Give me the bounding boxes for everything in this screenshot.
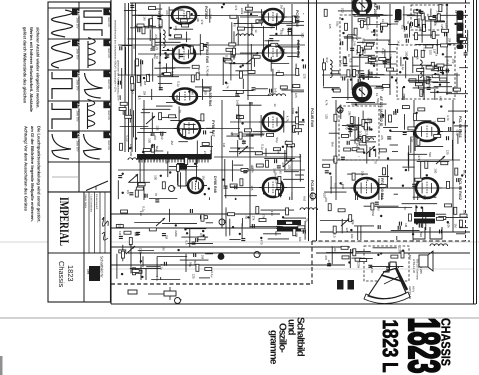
- wire: [139, 159, 141, 184]
- value label: [250, 166, 254, 173]
- svg-text:2M: 2M: [143, 91, 147, 96]
- value label: [351, 219, 355, 224]
- wire: [139, 253, 141, 264]
- value label: [238, 115, 242, 121]
- value label: [340, 182, 344, 186]
- resistor: [196, 73, 199, 80]
- value label: [356, 262, 360, 269]
- value label: [279, 47, 283, 53]
- svg-text:50µ: 50µ: [376, 98, 380, 103]
- wire: [367, 43, 375, 45]
- value label: [455, 130, 459, 136]
- value label: [451, 87, 455, 92]
- svg-text:125: 125: [192, 274, 196, 279]
- junction: [415, 206, 417, 208]
- IF stage dashed box 2: [339, 106, 379, 160]
- resistor: [259, 219, 266, 222]
- wire: [373, 247, 397, 249]
- wire: [354, 116, 356, 143]
- title table line: [88, 192, 90, 253]
- wire: [366, 85, 387, 87]
- wire: [119, 95, 121, 100]
- wire: [155, 41, 181, 43]
- capacitor: [152, 144, 154, 148]
- wire: [173, 28, 193, 30]
- value label: [340, 8, 344, 13]
- value label: [353, 95, 357, 100]
- svg-text:470: 470: [373, 29, 377, 34]
- svg-text:27k: 27k: [234, 5, 238, 10]
- svg-text:1n5: 1n5: [208, 14, 212, 19]
- capacitor: [157, 17, 161, 19]
- wire row mid2: [322, 74, 460, 76]
- resistor: [295, 129, 302, 132]
- wire: [360, 225, 362, 240]
- capacitor: [118, 176, 122, 178]
- coil L2: [236, 34, 254, 36]
- wire: [199, 34, 201, 55]
- antenna plug a: [337, 280, 344, 290]
- resistor: [201, 114, 204, 121]
- junction: [247, 216, 249, 218]
- svg-text:70: 70: [155, 56, 159, 60]
- resistor: [368, 56, 371, 63]
- value label: [269, 24, 273, 29]
- capacitor: [440, 230, 442, 234]
- wire: [346, 102, 375, 104]
- potentiometer arrow 8: [156, 218, 165, 226]
- value label: [358, 85, 362, 91]
- svg-text:0,5: 0,5: [349, 58, 353, 63]
- wire: [360, 24, 392, 26]
- value label: [436, 71, 440, 76]
- svg-text:4,7k: 4,7k: [324, 100, 328, 106]
- resistor: [228, 213, 235, 216]
- resistor: [285, 141, 292, 144]
- value label: [233, 23, 237, 27]
- svg-text:am Gl der Bildröhre liegende M: am Gl der Bildröhre liegende Meßpulle en…: [30, 126, 35, 222]
- junction: [332, 88, 334, 90]
- svg-text:50µ: 50µ: [336, 21, 340, 26]
- junction: [362, 49, 364, 51]
- junction: [223, 3, 225, 5]
- wire: [367, 70, 369, 80]
- wire: [358, 136, 377, 138]
- svg-text:470: 470: [324, 197, 328, 202]
- wire: [434, 89, 436, 100]
- oscillogram row line: [48, 100, 111, 102]
- value label: [143, 91, 147, 96]
- value label: [453, 224, 457, 229]
- wire: [290, 230, 305, 232]
- svg-text:125: 125: [345, 228, 349, 233]
- tube U4 PY88: [174, 119, 204, 139]
- channel tab 2: [457, 23, 464, 32]
- wire: [177, 174, 179, 185]
- value label: [298, 154, 302, 159]
- schematic right border: [473, 0, 475, 304]
- svg-text:1k: 1k: [347, 54, 351, 58]
- text und: [286, 319, 297, 335]
- oscillogram osc17 caption: [76, 49, 79, 60]
- svg-text:470: 470: [436, 127, 440, 132]
- svg-text:100: 100: [153, 175, 157, 180]
- svg-text:27k: 27k: [380, 86, 384, 91]
- svg-text:2M: 2M: [274, 44, 278, 49]
- svg-text:1n5: 1n5: [250, 185, 254, 190]
- junction: [204, 193, 206, 195]
- CRT label 2: [408, 286, 416, 300]
- resistor: [415, 178, 422, 181]
- value label: [327, 260, 331, 265]
- wire: [222, 57, 224, 85]
- capacitor: [270, 89, 272, 93]
- wire: [320, 220, 353, 222]
- svg-text:0,1µ: 0,1µ: [359, 131, 363, 137]
- chassis dashed bottom: [111, 283, 312, 285]
- value label: [345, 228, 349, 233]
- svg-text:18: 18: [75, 72, 81, 78]
- value label: [129, 144, 133, 149]
- value label: [118, 231, 122, 236]
- wire: [363, 39, 390, 41]
- capacitor: [162, 234, 166, 236]
- resistor: [415, 83, 422, 86]
- output transformer winding b: [414, 219, 435, 224]
- text Oszillo: [277, 323, 288, 352]
- resistor: [256, 207, 259, 214]
- wire: [129, 109, 131, 123]
- resistor: [293, 85, 300, 88]
- value label: [226, 83, 230, 89]
- wire: [332, 96, 368, 98]
- resistor: [439, 5, 442, 12]
- wire rail: [111, 246, 350, 248]
- svg-text:Bild 50V: Bild 50V: [107, 111, 110, 121]
- junction: [460, 42, 462, 44]
- resistor: [367, 18, 370, 25]
- svg-text:PCF802: PCF802: [204, 6, 208, 19]
- wire: [141, 112, 150, 114]
- resistor: [429, 17, 436, 20]
- svg-text:1k: 1k: [434, 53, 438, 57]
- wire: [122, 45, 133, 47]
- junction: [348, 261, 350, 263]
- wire: [137, 175, 139, 194]
- tube U12 PFL200: [351, 178, 383, 198]
- svg-text:1n5: 1n5: [174, 25, 178, 30]
- value label: [154, 34, 158, 39]
- value label: [415, 126, 419, 130]
- value label: [330, 142, 334, 147]
- wire row mid5: [118, 169, 305, 171]
- wire: [284, 171, 299, 173]
- capacitor: [348, 130, 352, 132]
- wire: [276, 16, 278, 31]
- resistor: [426, 66, 433, 69]
- svg-text:1k: 1k: [397, 40, 401, 44]
- resistor: [169, 115, 176, 118]
- resistor: [423, 24, 426, 31]
- value label: [440, 24, 444, 29]
- potentiometer arrow 2: [129, 174, 138, 182]
- wire: [465, 125, 468, 127]
- value label: [332, 158, 336, 163]
- CRT label: [412, 259, 423, 280]
- svg-text:50µ: 50µ: [155, 146, 159, 151]
- value label: [347, 54, 351, 58]
- junction: [238, 147, 240, 149]
- value label: [381, 19, 385, 23]
- wire: [349, 125, 351, 137]
- wire: [374, 87, 383, 89]
- junction: [405, 169, 407, 171]
- wire: [413, 34, 440, 36]
- wire: [357, 227, 359, 241]
- coil L9: [163, 30, 165, 48]
- wire: [402, 166, 414, 168]
- svg-text:10k: 10k: [462, 210, 466, 215]
- wire: [456, 233, 466, 235]
- tube U4 PY88 label: [211, 120, 215, 137]
- capacitor: [387, 137, 391, 139]
- value label: [427, 16, 431, 21]
- resistor: [119, 250, 126, 253]
- oscillogram osc9 number square: [103, 132, 112, 139]
- wire col g: [143, 100, 145, 200]
- value label: [432, 121, 436, 126]
- capacitor: [405, 34, 407, 38]
- value label: [368, 119, 372, 124]
- title small 288: [87, 269, 91, 275]
- svg-text:Zeile 50V: Zeile 50V: [76, 111, 79, 122]
- resistor: [278, 176, 281, 183]
- svg-text:27k: 27k: [200, 20, 204, 25]
- wire: [163, 67, 191, 69]
- junction: [454, 23, 456, 25]
- wire: [338, 10, 363, 12]
- wire: [323, 58, 325, 86]
- junction: [221, 6, 223, 8]
- wire: [117, 180, 119, 199]
- resistor: [150, 19, 153, 26]
- svg-text:125: 125: [274, 178, 278, 183]
- channel tab 3: [457, 34, 464, 44]
- wire: [263, 26, 265, 48]
- svg-text:0,5: 0,5: [138, 95, 142, 100]
- svg-text:1M: 1M: [404, 223, 408, 228]
- resistor: [159, 20, 162, 27]
- svg-text:1M: 1M: [222, 143, 226, 148]
- value label: [403, 27, 407, 32]
- wire: [186, 32, 188, 43]
- svg-text:10k: 10k: [361, 171, 365, 176]
- value label: [376, 98, 380, 103]
- svg-text:70: 70: [304, 218, 308, 222]
- value label: [279, 30, 283, 35]
- svg-text:1M: 1M: [142, 16, 146, 21]
- value label: [398, 247, 402, 254]
- svg-text:30p: 30p: [351, 219, 355, 224]
- value label: [446, 115, 450, 121]
- margin note text: [36, 27, 41, 109]
- wire: [425, 214, 427, 230]
- svg-text:220k: 220k: [174, 230, 178, 237]
- wire: [358, 117, 360, 139]
- svg-text:8: 8: [107, 103, 113, 106]
- svg-text:1n5: 1n5: [277, 149, 281, 154]
- margin note text: [29, 27, 34, 113]
- capacitor: [341, 157, 345, 159]
- resistor: [192, 65, 199, 68]
- oscillogram osc8 waveform: [88, 99, 95, 129]
- coil L5: [420, 60, 422, 78]
- wire: [140, 266, 142, 280]
- junction: [406, 58, 408, 60]
- resistor: [149, 228, 156, 231]
- resistor: [230, 15, 237, 18]
- oscillogram osc16 waveform: [52, 10, 73, 37]
- wire: [297, 40, 299, 58]
- junction: [177, 249, 179, 251]
- junction: [202, 234, 204, 236]
- title IMPERIAL text: [57, 197, 72, 246]
- page fold line 2: [110, 268, 474, 270]
- svg-text:10k: 10k: [196, 17, 200, 22]
- resistor: [334, 156, 337, 163]
- wire: [398, 267, 400, 268]
- junction: [263, 192, 265, 194]
- value label: [200, 20, 204, 25]
- wire: [357, 41, 375, 43]
- svg-text:50µ: 50µ: [157, 24, 161, 29]
- wire: [377, 207, 412, 209]
- resistor: [241, 168, 248, 171]
- flyback secondary black: [177, 163, 187, 169]
- resistor: [136, 187, 143, 190]
- title table line: [94, 192, 96, 253]
- svg-text:0,5: 0,5: [423, 47, 427, 52]
- resistor: [344, 148, 351, 151]
- svg-text:5k6: 5k6: [413, 132, 417, 137]
- value label: [225, 55, 229, 60]
- junction: [446, 4, 448, 6]
- svg-text:0,1µ: 0,1µ: [126, 136, 130, 142]
- wire: [368, 74, 385, 76]
- svg-text:10k: 10k: [366, 177, 370, 182]
- wire: [263, 233, 281, 235]
- wire: [357, 191, 359, 200]
- value label: [423, 195, 427, 200]
- resistor: [293, 229, 296, 236]
- wire: [253, 131, 276, 133]
- capacitor: [130, 5, 134, 7]
- wire: [359, 76, 373, 78]
- node H circle: [337, 107, 344, 113]
- value label: [323, 193, 327, 198]
- resistor: [196, 264, 199, 271]
- capacitor: [419, 224, 421, 228]
- capacitor: [192, 242, 196, 244]
- junction: [373, 149, 375, 151]
- value label: [428, 84, 432, 89]
- wire: [181, 236, 208, 238]
- value label: [129, 151, 133, 156]
- wire col a: [159, 4, 161, 90]
- wire row U1: [138, 15, 258, 17]
- oscillogram diag waveform: [86, 181, 108, 191]
- resistor: [332, 71, 339, 74]
- wire: [137, 132, 166, 134]
- capacitor: [136, 232, 140, 234]
- wire: [125, 47, 127, 75]
- resistor: [334, 114, 337, 121]
- capacitor: [351, 249, 353, 253]
- junction: [260, 237, 262, 239]
- capacitor: [123, 112, 127, 114]
- junction: [442, 72, 444, 74]
- value label: [149, 48, 153, 52]
- svg-text:70: 70: [415, 126, 419, 130]
- svg-text:8n2: 8n2: [462, 170, 466, 175]
- wire: [178, 141, 188, 143]
- margin note text: [30, 126, 35, 222]
- coil L3: [268, 94, 286, 96]
- resistor: [292, 16, 295, 23]
- transistor Q2 AF121 label: [379, 96, 383, 127]
- wire: [158, 82, 172, 84]
- junction: [395, 79, 397, 81]
- potentiometer arrow 1: [146, 116, 155, 124]
- wire: [151, 279, 180, 281]
- resistor: [459, 38, 466, 41]
- value label: [205, 66, 209, 72]
- wire row U10: [390, 131, 462, 133]
- text CHASSIS: [439, 318, 453, 366]
- wire: [235, 198, 237, 200]
- value label: [353, 41, 357, 46]
- wire: [280, 46, 300, 48]
- svg-text:1n5: 1n5: [294, 93, 298, 98]
- wire bottom right rail: [316, 252, 470, 254]
- resistor: [246, 7, 253, 10]
- svg-text:50µ: 50µ: [434, 21, 438, 26]
- junction: [339, 110, 341, 112]
- junction: [175, 224, 177, 226]
- wire: [160, 33, 162, 56]
- tube U7 PC92: [259, 45, 287, 61]
- resistor: [365, 119, 372, 122]
- junction: [382, 114, 384, 116]
- resistor: [142, 27, 145, 34]
- value label: [263, 10, 267, 15]
- wire: [261, 9, 263, 26]
- oscillogram osc8 caption: [107, 111, 110, 121]
- svg-text:100: 100: [129, 151, 133, 156]
- margin note text: [23, 27, 28, 104]
- resistor: [431, 62, 434, 69]
- value label: [250, 165, 254, 170]
- svg-text:125: 125: [117, 223, 121, 228]
- svg-text:27k: 27k: [298, 154, 302, 159]
- value label: [355, 49, 359, 55]
- svg-text:Bild 50V: Bild 50V: [107, 80, 110, 90]
- wire: [384, 110, 386, 126]
- wire: [278, 21, 292, 23]
- junction: [380, 252, 382, 254]
- value label: [411, 239, 415, 243]
- svg-text:10k: 10k: [298, 237, 302, 242]
